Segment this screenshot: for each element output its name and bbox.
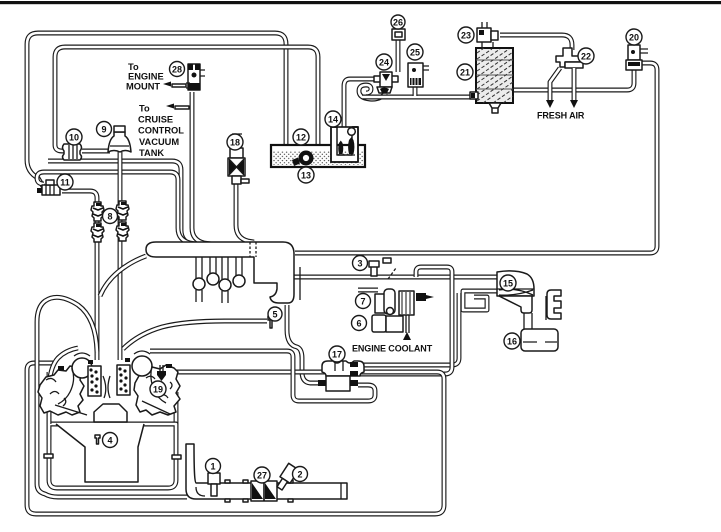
svg-text:VACUUM: VACUUM — [139, 137, 179, 147]
svg-text:18: 18 — [230, 138, 240, 148]
svg-text:21: 21 — [460, 68, 470, 78]
svg-text:15: 15 — [503, 279, 513, 289]
svg-text:19: 19 — [153, 385, 163, 395]
svg-text:20: 20 — [629, 33, 639, 43]
svg-text:ENGINE: ENGINE — [128, 72, 164, 82]
svg-text:17: 17 — [332, 350, 342, 360]
svg-text:MOUNT: MOUNT — [126, 82, 160, 92]
svg-text:22: 22 — [581, 52, 591, 62]
svg-text:6: 6 — [356, 319, 361, 329]
svg-text:3: 3 — [357, 259, 362, 269]
svg-text:ENGINE COOLANT: ENGINE COOLANT — [352, 344, 433, 354]
svg-text:1: 1 — [210, 462, 215, 472]
svg-text:25: 25 — [410, 48, 420, 58]
svg-text:11: 11 — [60, 178, 70, 188]
svg-text:To: To — [128, 62, 139, 72]
svg-text:14: 14 — [328, 115, 338, 125]
svg-text:CRUISE: CRUISE — [138, 115, 173, 125]
svg-text:4: 4 — [107, 436, 112, 446]
svg-text:24: 24 — [379, 58, 389, 68]
svg-text:27: 27 — [257, 471, 267, 481]
svg-text:7: 7 — [360, 297, 365, 307]
svg-text:TANK: TANK — [139, 148, 164, 158]
svg-text:13: 13 — [301, 171, 311, 181]
svg-text:28: 28 — [172, 65, 182, 75]
svg-text:9: 9 — [101, 125, 106, 135]
svg-text:CONTROL: CONTROL — [138, 126, 184, 136]
svg-text:2: 2 — [297, 470, 302, 480]
svg-text:5: 5 — [272, 310, 277, 320]
svg-text:8: 8 — [107, 212, 112, 222]
svg-text:To: To — [139, 104, 150, 114]
svg-text:12: 12 — [296, 133, 306, 143]
svg-text:FRESH AIR: FRESH AIR — [537, 111, 585, 121]
svg-text:26: 26 — [393, 18, 403, 28]
svg-text:16: 16 — [507, 337, 517, 347]
svg-text:10: 10 — [69, 133, 79, 143]
svg-text:23: 23 — [461, 31, 471, 41]
